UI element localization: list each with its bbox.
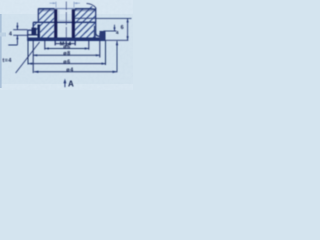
ext line x105.5 — [105, 41, 107, 65]
top small dim line left — [50, 2, 56, 4]
left dim arrows — [16, 26, 18, 30]
flange right edge — [104, 32, 106, 41]
top small dim ext lines — [56, 2, 74, 8]
thread minor line — [58, 10, 60, 21]
left ext line upper — [13, 29, 27, 31]
flange left edge — [27, 30, 29, 40]
svg-text:ø6: ø6 — [63, 44, 70, 50]
svg-text:t=4: t=4 — [3, 58, 12, 64]
threaded hole left thick edge — [54, 9, 57, 38]
bottom face line — [27, 39, 105, 41]
dim line 2 — [45, 48, 89, 50]
right vert dim line — [127, 18, 129, 40]
ext line x44.8 — [44, 41, 46, 50]
right tall dim arrows — [127, 18, 129, 22]
right ext line top — [96, 17, 132, 19]
threaded hole right thick edge — [72, 9, 75, 38]
top shadow strip left wall — [38, 9, 54, 12]
centerline — [65, 2, 67, 47]
right small vert dim — [114, 25, 116, 31]
ext line x75 down — [74, 41, 76, 46]
top small dim line right — [75, 2, 81, 4]
svg-text:4: 4 — [116, 30, 119, 36]
dimension texts — [3, 25, 125, 88]
dim line 1 — [55, 43, 75, 45]
svg-text:4: 4 — [9, 32, 12, 38]
svg-text:ø4: ø4 — [66, 68, 74, 74]
dim4 arrows — [28, 63, 32, 65]
hatching flange left — [40, 30, 54, 37]
leader arc R at boss corner — [87, 3, 97, 8]
svg-text:ø8: ø8 — [63, 51, 70, 57]
left small shelf — [8, 40, 17, 45]
thread relief line in hole — [57, 20, 72, 22]
ext line x28 — [27, 41, 29, 65]
dim line 4 — [28, 63, 105, 65]
flange top right — [100, 31, 105, 33]
hatching boss left wall — [39, 9, 54, 22]
ext line x55 down — [54, 41, 56, 46]
right ext line mid — [104, 30, 117, 32]
boss right outer edge — [96, 8, 100, 36]
hatching mid right — [75, 22, 96, 33]
hatching boss right wall — [75, 6, 96, 22]
ext line x99.8 — [99, 41, 101, 58]
right small dim arrow — [113, 27, 115, 31]
dim2 arrows — [45, 47, 49, 49]
A arrow — [64, 79, 67, 84]
hatching flange right — [75, 30, 95, 37]
mechanical section drawing of flanged bushing — [0, 0, 133, 90]
dim5 arrows — [34, 71, 38, 73]
dark wall bar left — [38, 25, 40, 38]
step shoulder line — [33, 21, 95, 23]
dark groove block left — [32, 28, 37, 35]
leader diagonal t= — [16, 42, 40, 73]
dim line 3 — [33, 54, 100, 56]
dim line 5 — [34, 71, 117, 73]
right ext line bottom — [105, 39, 128, 41]
bottom dark band of flange — [28, 38, 105, 41]
svg-text:A: A — [68, 79, 74, 88]
dim3 arrows — [33, 54, 37, 56]
dark wall bar right — [94, 26, 96, 38]
ext line x33 — [32, 41, 34, 73]
hatching mid left — [33, 22, 54, 30]
arrowheads — [16, 2, 128, 87]
dark band on left flange — [28, 34, 40, 35]
svg-text:6: 6 — [121, 25, 124, 31]
right lower vert ext — [116, 41, 118, 72]
inner step line right — [75, 17, 96, 19]
left ext line lower — [13, 34, 27, 36]
boss left outer edge — [37, 9, 39, 23]
dark foot right — [99, 32, 105, 41]
faint scan edge — [0, 14, 2, 88]
right up arrow under flange — [116, 41, 118, 45]
flange top left — [28, 29, 34, 31]
paper background — [0, 0, 133, 90]
left vert dim line — [16, 23, 18, 43]
mid left outer edge — [32, 22, 34, 30]
top shadow strip right wall — [75, 9, 96, 12]
ext line x88.8 — [88, 41, 90, 50]
boss top edge — [38, 8, 54, 10]
top small dim arrows — [53, 2, 56, 4]
boss top right fillet — [89, 9, 96, 10]
svg-text:ø6: ø6 — [63, 59, 70, 65]
